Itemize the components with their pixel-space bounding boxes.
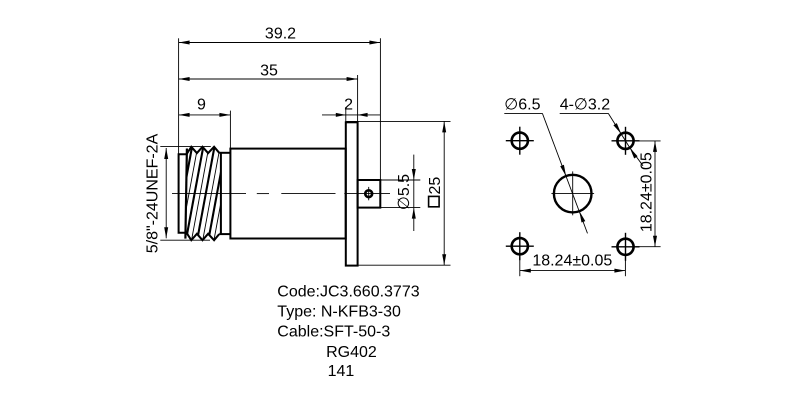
dimension square 25	[346, 121, 450, 265]
svg-text:9: 9	[197, 96, 206, 113]
svg-text:39.2: 39.2	[265, 26, 296, 43]
svg-text:18.24±0.05: 18.24±0.05	[532, 253, 612, 270]
svg-text:Type: N-KFB3-30: Type: N-KFB3-30	[277, 304, 401, 321]
thread runout section top	[219, 152, 230, 154]
thread right boundary	[220, 153, 222, 234]
flange front view center hole	[554, 175, 592, 213]
svg-text:∅5.5: ∅5.5	[396, 174, 413, 210]
thread crest zigzag bottom	[187, 233, 220, 241]
dimension dia 5.5	[381, 155, 420, 231]
thread helix hatching	[174, 145, 237, 242]
centerline left view	[172, 193, 390, 195]
connector left collar	[179, 154, 187, 233]
svg-text:141: 141	[328, 363, 355, 380]
dimension 18.24 horizontal	[520, 258, 626, 277]
mounting hole bottom-right	[617, 239, 633, 255]
svg-text:5/8"-24UNEF-2A: 5/8"-24UNEF-2A	[145, 133, 162, 253]
svg-text:2: 2	[344, 96, 353, 113]
flange	[346, 122, 358, 265]
dimension 9	[179, 111, 231, 149]
svg-text:Code:JC3.660.3773: Code:JC3.660.3773	[277, 284, 419, 301]
svg-text:4-∅3.2: 4-∅3.2	[560, 97, 611, 114]
part info text block	[277, 284, 419, 381]
center hole cross	[551, 171, 594, 215]
mounting hole top-right	[617, 133, 633, 149]
svg-text:18.24±0.05: 18.24±0.05	[639, 152, 656, 232]
mounting hole bottom-left	[512, 238, 528, 254]
dimension 18.24 vertical	[636, 141, 661, 247]
thread spec dimension 5/8-24UNEF-2A	[160, 147, 211, 241]
svg-text:35: 35	[260, 63, 278, 80]
dimension 39.2	[179, 38, 381, 179]
thread left flank line	[185, 149, 187, 239]
thread crest zigzag top	[187, 147, 220, 155]
svg-text:25: 25	[427, 177, 444, 195]
svg-text:∅6.5: ∅6.5	[504, 97, 540, 114]
svg-text:Cable:SFT-50-3: Cable:SFT-50-3	[277, 324, 390, 341]
dimension 2	[322, 107, 380, 122]
rear boss hole center tick	[368, 187, 370, 200]
rear boss hole circle	[365, 190, 372, 197]
mounting hole top-left	[512, 133, 528, 149]
svg-text:RG402: RG402	[326, 344, 377, 361]
rear boss	[358, 180, 381, 208]
thread runout section bottom	[219, 233, 230, 235]
connector body	[230, 149, 345, 239]
dimension 35	[179, 75, 358, 122]
